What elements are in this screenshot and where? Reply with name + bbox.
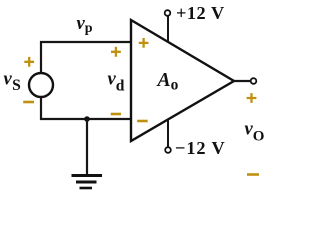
wire output: apex to output terminal — [234, 80, 251, 82]
wire +12V supply lead — [167, 16, 169, 42]
wire -12V supply lead — [167, 120, 169, 148]
output terminal — [251, 78, 257, 84]
svg-text:+12 V: +12 V — [176, 3, 225, 23]
op-amp noninverting input plus sign — [139, 38, 149, 48]
wire top: source to op-amp noninverting input — [40, 41, 131, 43]
node junction dot (ground tap) — [84, 116, 90, 122]
wire bottom: source to op-amp inverting input — [40, 118, 131, 120]
vd minus sign — [111, 113, 121, 116]
wire left upper: top wire down to source — [40, 41, 42, 73]
-12V supply terminal — [165, 147, 171, 153]
op-amp inverting input minus sign — [137, 120, 148, 123]
voltage source VS — [29, 73, 53, 97]
source minus sign — [23, 101, 34, 104]
source plus sign — [24, 57, 34, 67]
output minus sign — [247, 173, 259, 176]
vd plus sign — [111, 47, 121, 57]
output plus sign — [247, 93, 257, 103]
wire left lower: source to bottom wire — [40, 97, 42, 120]
ground — [72, 176, 103, 189]
wire ground stem — [86, 119, 88, 175]
+12V supply terminal — [165, 10, 171, 16]
op-amp U1 triangle — [131, 20, 234, 141]
svg-text:−12 V: −12 V — [175, 138, 226, 158]
